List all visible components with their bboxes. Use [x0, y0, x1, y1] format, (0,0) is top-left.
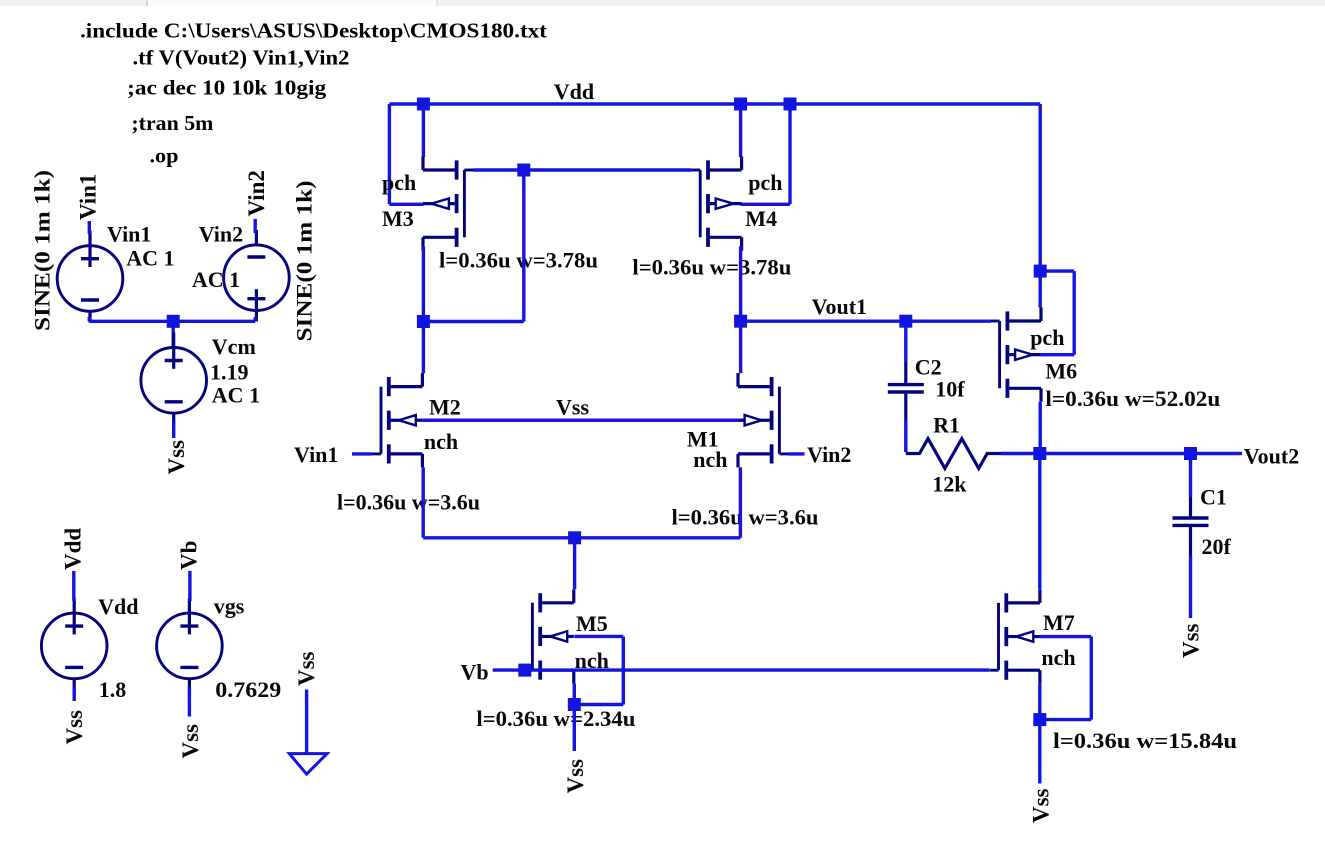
svg-text:Vss: Vss — [1029, 788, 1054, 823]
svg-text:Vss: Vss — [556, 395, 589, 420]
junction at common-mode node — [167, 315, 180, 328]
wire M1 gate to Vin2 — [788, 452, 805, 455]
wire C1 top lead — [1189, 454, 1192, 498]
junction at Vout1 node — [734, 315, 747, 328]
svg-text:Vdd: Vdd — [554, 79, 594, 104]
wire C1 bottom lead — [1189, 527, 1192, 556]
junction at tail node — [568, 531, 581, 544]
transistor M1 (nch) — [738, 373, 788, 467]
svg-text:pch: pch — [1030, 325, 1064, 350]
svg-text:l=0.36u w=2.34u: l=0.36u w=2.34u — [476, 706, 635, 731]
junction on gate rail — [517, 164, 530, 177]
svg-text:Vss: Vss — [62, 710, 87, 745]
svg-text:0.7629: 0.7629 — [215, 677, 281, 702]
svg-text:12k: 12k — [932, 472, 967, 497]
wire M7 source down — [1038, 684, 1041, 720]
wire M3 drain / M2 drain column — [422, 247, 425, 374]
junction at M6 source node — [1034, 265, 1047, 278]
wire Vin2 top stub — [253, 219, 256, 233]
svg-text:SINE(0 1m 1k): SINE(0 1m 1k) — [30, 170, 55, 331]
svg-text:Vcm: Vcm — [212, 334, 256, 359]
svg-text:Vss: Vss — [178, 724, 203, 759]
junction at C2 tap on Vout1 — [899, 315, 912, 328]
svg-text:l=0.36u w=52.02u: l=0.36u w=52.02u — [1045, 386, 1220, 411]
svg-text:.op: .op — [150, 144, 179, 168]
wire Vb rail to M7 gate — [493, 668, 990, 671]
wire C2 bottom lead — [904, 394, 907, 421]
wire to ground symbol — [305, 690, 308, 754]
svg-text:Vb: Vb — [177, 541, 202, 570]
wire junction to Vcm top — [171, 321, 174, 348]
wire M6 drain down to Vout2 node — [1038, 402, 1041, 454]
wire M2 source down — [422, 467, 425, 537]
voltage source Vdd (1.8V) — [41, 598, 107, 690]
wire Vout2 rail — [1001, 452, 1242, 455]
wire M7 source to Vss — [1038, 720, 1041, 784]
svg-text:;ac dec 10 10k 10gig: ;ac dec 10 10k 10gig — [127, 75, 326, 99]
svg-text:Vin1: Vin1 — [75, 174, 100, 220]
wire vgs source top stub — [188, 571, 191, 601]
svg-text:M7: M7 — [1043, 610, 1075, 635]
svg-text:Vout2: Vout2 — [1244, 444, 1299, 469]
capacitor C2 — [888, 385, 924, 392]
wire bulk rail M2-M1 — [422, 419, 740, 422]
wire M6 source stub to junction — [1038, 271, 1041, 307]
svg-text:Vss: Vss — [294, 651, 319, 686]
svg-text:Vin2: Vin2 — [199, 222, 243, 247]
svg-text:R1: R1 — [933, 413, 960, 438]
wire M4 source to rail — [739, 104, 742, 157]
wire tail down to M5 drain — [573, 538, 576, 589]
wire Vdd source bottom stub — [72, 687, 75, 701]
wire M7 bulk loop — [1040, 635, 1092, 638]
wire Vcm bottom stub — [172, 421, 175, 438]
svg-text:pch: pch — [382, 170, 416, 195]
ground symbol — [289, 754, 327, 775]
svg-text:SINE(0 1m 1k): SINE(0 1m 1k) — [292, 181, 317, 342]
svg-text:Vout1: Vout1 — [812, 294, 867, 319]
svg-text:nch: nch — [1041, 645, 1075, 670]
wire gate rail down to M3 drain node — [522, 170, 525, 322]
svg-text:vgs: vgs — [214, 594, 245, 619]
transistor M3 (pch) — [423, 157, 473, 251]
junction at M3 drain node — [417, 315, 430, 328]
svg-text:Vss: Vss — [164, 440, 189, 475]
wire M4 drain / M1 drain column — [739, 247, 742, 374]
voltage source Vin1 — [57, 231, 123, 323]
svg-text:l=0.36u w=3.6u: l=0.36u w=3.6u — [337, 490, 480, 515]
svg-text:nch: nch — [693, 447, 727, 472]
svg-text:C1: C1 — [1200, 485, 1227, 510]
svg-text:Vdd: Vdd — [61, 528, 86, 570]
wire Vin1 bottom stub — [88, 317, 91, 321]
browser tab strip (decorative top bar) — [0, 0, 1325, 6]
svg-text:M3: M3 — [382, 206, 414, 231]
svg-text:1.8: 1.8 — [99, 677, 127, 702]
svg-text:AC 1: AC 1 — [192, 267, 240, 292]
junction Vdd rail at M4 bulk leg — [784, 98, 797, 111]
voltage source Vcm — [141, 333, 207, 425]
capacitor C1 — [1173, 518, 1209, 525]
wire Vin1 to M2 gate — [352, 452, 372, 455]
svg-text:20f: 20f — [1202, 534, 1232, 559]
transistor M5 (nch) — [524, 589, 574, 683]
junction at M5 source node — [568, 698, 581, 711]
svg-text:;tran 5m: ;tran 5m — [131, 111, 213, 135]
transistor M2 (nch) — [372, 373, 422, 467]
wire vgs source bottom stub — [188, 687, 191, 717]
svg-text:l=0.36u w=3.78u: l=0.36u w=3.78u — [632, 255, 791, 280]
wire C2 top lead — [904, 321, 907, 362]
svg-text:AC 1: AC 1 — [126, 245, 174, 270]
transistor M7 (nch) — [990, 589, 1040, 683]
junction Vdd rail at M4 source — [734, 98, 747, 111]
wire M6 bulk loop — [1040, 269, 1074, 272]
wire Vdd rail — [389, 102, 1040, 105]
voltage source Vin2 (flipped) — [224, 230, 290, 322]
wire tail horizontal — [423, 536, 740, 539]
svg-text:Vss: Vss — [1179, 623, 1204, 658]
svg-text:M2: M2 — [429, 394, 461, 419]
svg-text:.include C:\Users\ASUS\Desktop: .include C:\Users\ASUS\Desktop\CMOS180.t… — [80, 19, 548, 43]
svg-text:l=0.36u w=15.84u: l=0.36u w=15.84u — [1053, 728, 1237, 753]
svg-text:Vin2: Vin2 — [807, 442, 851, 467]
svg-text:M4: M4 — [745, 206, 777, 231]
svg-text:AC 1: AC 1 — [212, 383, 260, 408]
voltage source vgs — [157, 598, 223, 690]
wire Vout1 to M6 gate — [741, 320, 991, 323]
wire gate rail M3-M4 — [473, 168, 692, 171]
junction Vout2 at C1 tap — [1184, 447, 1197, 460]
svg-text:l=0.36u w=3.6u: l=0.36u w=3.6u — [672, 505, 819, 530]
wire rail right leg down to M6 — [1038, 104, 1041, 271]
junction Vout2 at M6/M7 drains — [1033, 447, 1046, 460]
wire joining Vin1 and Vin2 bottoms — [89, 320, 255, 323]
resistor R1 — [906, 439, 1001, 469]
svg-text:M5: M5 — [576, 611, 608, 636]
svg-text:Vin1: Vin1 — [107, 222, 151, 247]
svg-text:Vss: Vss — [563, 759, 588, 794]
wire M3 source to rail — [422, 104, 425, 157]
svg-text:Vdd: Vdd — [98, 594, 138, 619]
svg-text:pch: pch — [748, 170, 782, 195]
wire M5 bulk loop — [574, 635, 623, 638]
wire M7 drain up to Vout2 — [1038, 454, 1041, 590]
transistor M6 (pch) — [991, 308, 1041, 402]
svg-text:M6: M6 — [1045, 359, 1077, 384]
transistor M4 (pch) — [692, 157, 742, 251]
wire Vin2 bottom stub — [253, 317, 256, 321]
svg-text:1.19: 1.19 — [210, 360, 249, 385]
wire rail left leg down to M3 bulk — [388, 104, 391, 204]
junction at M7 source node — [1033, 713, 1046, 726]
wire M1 source down — [739, 467, 742, 537]
junction Vb at M5 gate — [518, 664, 531, 677]
svg-text:.tf V(Vout2) Vin1,Vin2: .tf V(Vout2) Vin1,Vin2 — [133, 45, 350, 69]
svg-text:Vin1: Vin1 — [294, 442, 338, 467]
wire Vdd source top stub — [72, 571, 75, 601]
wire M4 bulk leg — [788, 104, 791, 204]
svg-text:nch: nch — [424, 429, 458, 454]
wire M5 source to Vss — [573, 705, 576, 752]
wire M5 source down — [573, 684, 576, 705]
svg-text:10f: 10f — [935, 377, 965, 402]
wire across to M3 drain column — [423, 320, 523, 323]
svg-text:Vin2: Vin2 — [244, 170, 269, 216]
junction Vdd rail at M3 source — [417, 98, 430, 111]
svg-text:Vb: Vb — [461, 660, 489, 685]
svg-text:l=0.36u w=3.78u: l=0.36u w=3.78u — [439, 248, 598, 273]
wire Vin1 top stub — [88, 221, 91, 234]
